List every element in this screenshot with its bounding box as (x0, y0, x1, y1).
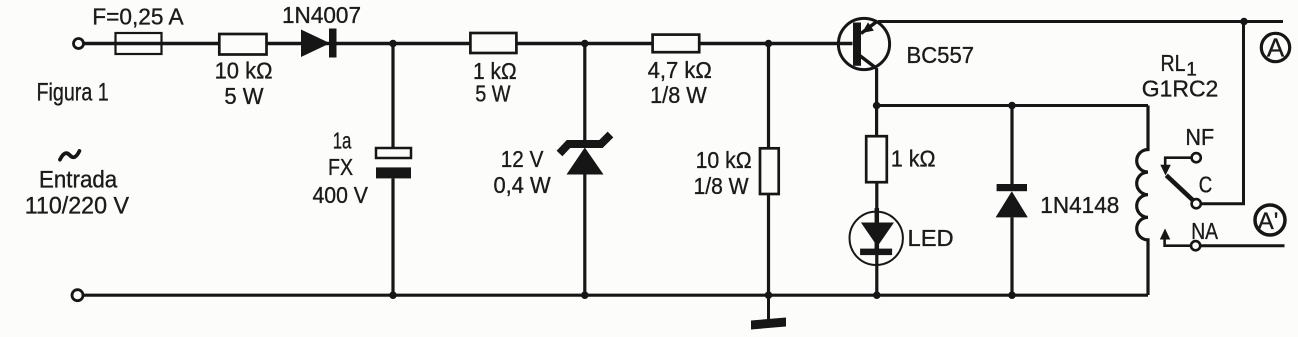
armature arm (1166, 175, 1193, 201)
svg-text:5 W: 5 W (475, 81, 511, 107)
wire collector rail (877, 104, 1148, 107)
node flyback bottom (1008, 291, 1016, 299)
emitter arrow (862, 22, 874, 33)
svg-text:F=0,25 A: F=0,25 A (92, 3, 184, 29)
zener D2 12V cathode bar (560, 135, 611, 154)
svg-text:FX: FX (328, 154, 353, 180)
diode D3 1N4148 (996, 184, 1028, 217)
wire zener top lead (583, 44, 586, 147)
contact NA (1191, 241, 1200, 250)
svg-text:110/220 V: 110/220 V (25, 192, 129, 219)
svg-text:BC557: BC557 (907, 42, 975, 68)
wire top main AC line (83, 42, 853, 46)
wire C to relay feed (1201, 22, 1244, 204)
svg-text:1 kΩ: 1 kΩ (891, 145, 936, 171)
arrow NF (1160, 165, 1171, 176)
svg-text:1N4148: 1N4148 (1040, 192, 1119, 218)
svg-text:400 V: 400 V (313, 182, 369, 208)
node capacitor bottom (389, 291, 397, 299)
wire bottom main (83, 294, 1149, 297)
ground stem wire (767, 295, 770, 319)
wire capacitor top lead (391, 44, 394, 149)
svg-text:Entrada: Entrada (39, 166, 118, 193)
node collector (873, 102, 881, 110)
node zener bottom (581, 291, 589, 299)
wire flyback top lead (1010, 106, 1013, 185)
wire LED to ground rail (875, 252, 878, 295)
svg-text:0,4 W: 0,4 W (494, 172, 551, 198)
resistor R5 1k vertical (866, 136, 887, 182)
ground (751, 318, 786, 330)
wire flyback bottom lead (1010, 217, 1013, 295)
AC tilde symbol (60, 151, 79, 160)
svg-text:Figura 1: Figura 1 (37, 78, 109, 106)
svg-text:NA: NA (1191, 218, 1218, 244)
svg-text:10 kΩ: 10 kΩ (696, 147, 752, 173)
resistor R1 10k 5W (219, 34, 266, 55)
svg-text:NF: NF (1185, 124, 1214, 150)
node rectifier output (389, 40, 397, 48)
wire R5 to LED (875, 182, 878, 213)
resistor R4 10k 1/8W vertical (760, 148, 779, 194)
svg-text:12 V: 12 V (501, 146, 544, 172)
wire capacitor bottom lead (391, 178, 394, 295)
wire NA to A' (1200, 244, 1284, 247)
svg-text:A': A' (1258, 208, 1279, 235)
svg-text:5 W: 5 W (224, 83, 263, 109)
zener D2 triangle (567, 148, 604, 175)
base bar (853, 23, 861, 66)
diode D1 1N4007 (301, 29, 337, 58)
svg-text:1/8 W: 1/8 W (650, 82, 707, 108)
capacitor C1 top plate (376, 148, 411, 158)
transistor Q1 BC557 (838, 18, 890, 69)
svg-text:1N4007: 1N4007 (282, 2, 361, 28)
emitter wire (861, 21, 878, 34)
contact NF (1192, 153, 1201, 162)
node LED bottom (873, 291, 881, 299)
resistor R3 4,7k (653, 35, 700, 53)
terminal input top (74, 39, 84, 49)
svg-text:RL: RL (1161, 50, 1186, 76)
node ground junction (765, 291, 773, 299)
svg-text:C: C (1199, 171, 1213, 197)
svg-text:10 kΩ: 10 kΩ (215, 58, 273, 84)
terminal A' (1255, 205, 1285, 235)
fuse F=0,25A (116, 33, 162, 54)
node zener top (581, 40, 589, 48)
node relay feed (1240, 18, 1248, 26)
wire zener bottom lead (583, 175, 586, 296)
svg-text:LED: LED (908, 225, 954, 251)
collector wire (859, 55, 877, 69)
base wire into Q1 (838, 42, 853, 46)
terminal input bottom (72, 290, 83, 301)
svg-text:A: A (1267, 33, 1285, 63)
wire NA lead (1165, 239, 1192, 246)
node base divider (765, 40, 773, 48)
svg-text:1a: 1a (333, 127, 352, 153)
terminal A (1261, 33, 1289, 61)
wire emitter to A (878, 20, 1283, 23)
contact C common (1192, 199, 1201, 208)
LED D4 (850, 208, 903, 265)
relay coil RL1 (1137, 106, 1148, 296)
wire collector down (875, 68, 878, 136)
capacitor C1 bottom plate (376, 167, 411, 178)
node flyback top (1008, 102, 1016, 110)
svg-text:4,7 kΩ: 4,7 kΩ (648, 57, 712, 83)
svg-text:G1RC2: G1RC2 (1142, 76, 1219, 102)
wire R4 bottom lead (767, 194, 770, 295)
resistor R2 1k 5W (470, 33, 516, 53)
svg-text:1/8 W: 1/8 W (694, 173, 749, 199)
arrow NA (1160, 229, 1171, 240)
wire NF lead (1165, 158, 1192, 166)
wire R4 top lead (767, 44, 770, 149)
